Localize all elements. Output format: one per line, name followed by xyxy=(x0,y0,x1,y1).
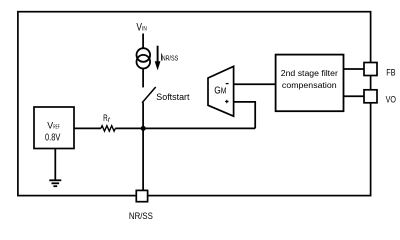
wire current source to switch xyxy=(142,68,144,87)
svg-text:f: f xyxy=(108,117,111,124)
node VIN label xyxy=(136,22,147,34)
svg-text:VO: VO xyxy=(386,94,396,105)
voltage reference VREF 0.8V xyxy=(34,107,74,149)
wire riser to GM + input xyxy=(234,102,256,128)
svg-text:REF: REF xyxy=(53,125,60,131)
current arrow INR/SS xyxy=(155,46,161,71)
resistor Rf xyxy=(101,126,115,131)
block 2nd stage filter compensation xyxy=(276,55,344,112)
ground xyxy=(49,180,61,186)
op-amp GM xyxy=(208,66,234,116)
wire filter box to VO pin xyxy=(344,95,365,97)
svg-text:NR/SS: NR/SS xyxy=(129,211,153,220)
svg-text:FB: FB xyxy=(386,67,395,78)
wire VREF to ground xyxy=(54,149,56,180)
svg-text:compensation: compensation xyxy=(282,80,337,90)
IC boundary xyxy=(18,12,371,196)
pin FB xyxy=(364,63,377,76)
wire GM - input to filter box xyxy=(234,83,276,85)
svg-text:NR/SS: NR/SS xyxy=(162,56,179,63)
wire resistor to GM + riser xyxy=(115,127,255,129)
junction node NR/SS dot xyxy=(141,126,146,131)
wire switch to node NR/SS xyxy=(142,103,144,129)
label Rf xyxy=(103,113,111,124)
svg-text:2nd stage filter: 2nd stage filter xyxy=(281,68,338,78)
wire VIN to current source xyxy=(142,34,144,49)
svg-text:IN: IN xyxy=(142,26,147,33)
label INR/SS xyxy=(160,52,178,63)
current source INR/SS xyxy=(137,48,151,68)
svg-text:Softstart: Softstart xyxy=(156,92,190,103)
svg-text:0.8V: 0.8V xyxy=(45,133,61,144)
wire node to NR/SS pin xyxy=(142,128,144,190)
wire filter box to FB pin xyxy=(344,68,365,70)
label Softstart xyxy=(156,92,190,103)
svg-text:GM: GM xyxy=(214,86,226,97)
wire VREF to resistor xyxy=(74,127,101,129)
label VO xyxy=(386,94,396,105)
pin VO xyxy=(364,90,377,103)
label FB xyxy=(386,67,395,78)
switch Softstart blade xyxy=(142,87,156,103)
pin NR/SS xyxy=(136,190,147,201)
label NR/SS xyxy=(129,211,153,221)
